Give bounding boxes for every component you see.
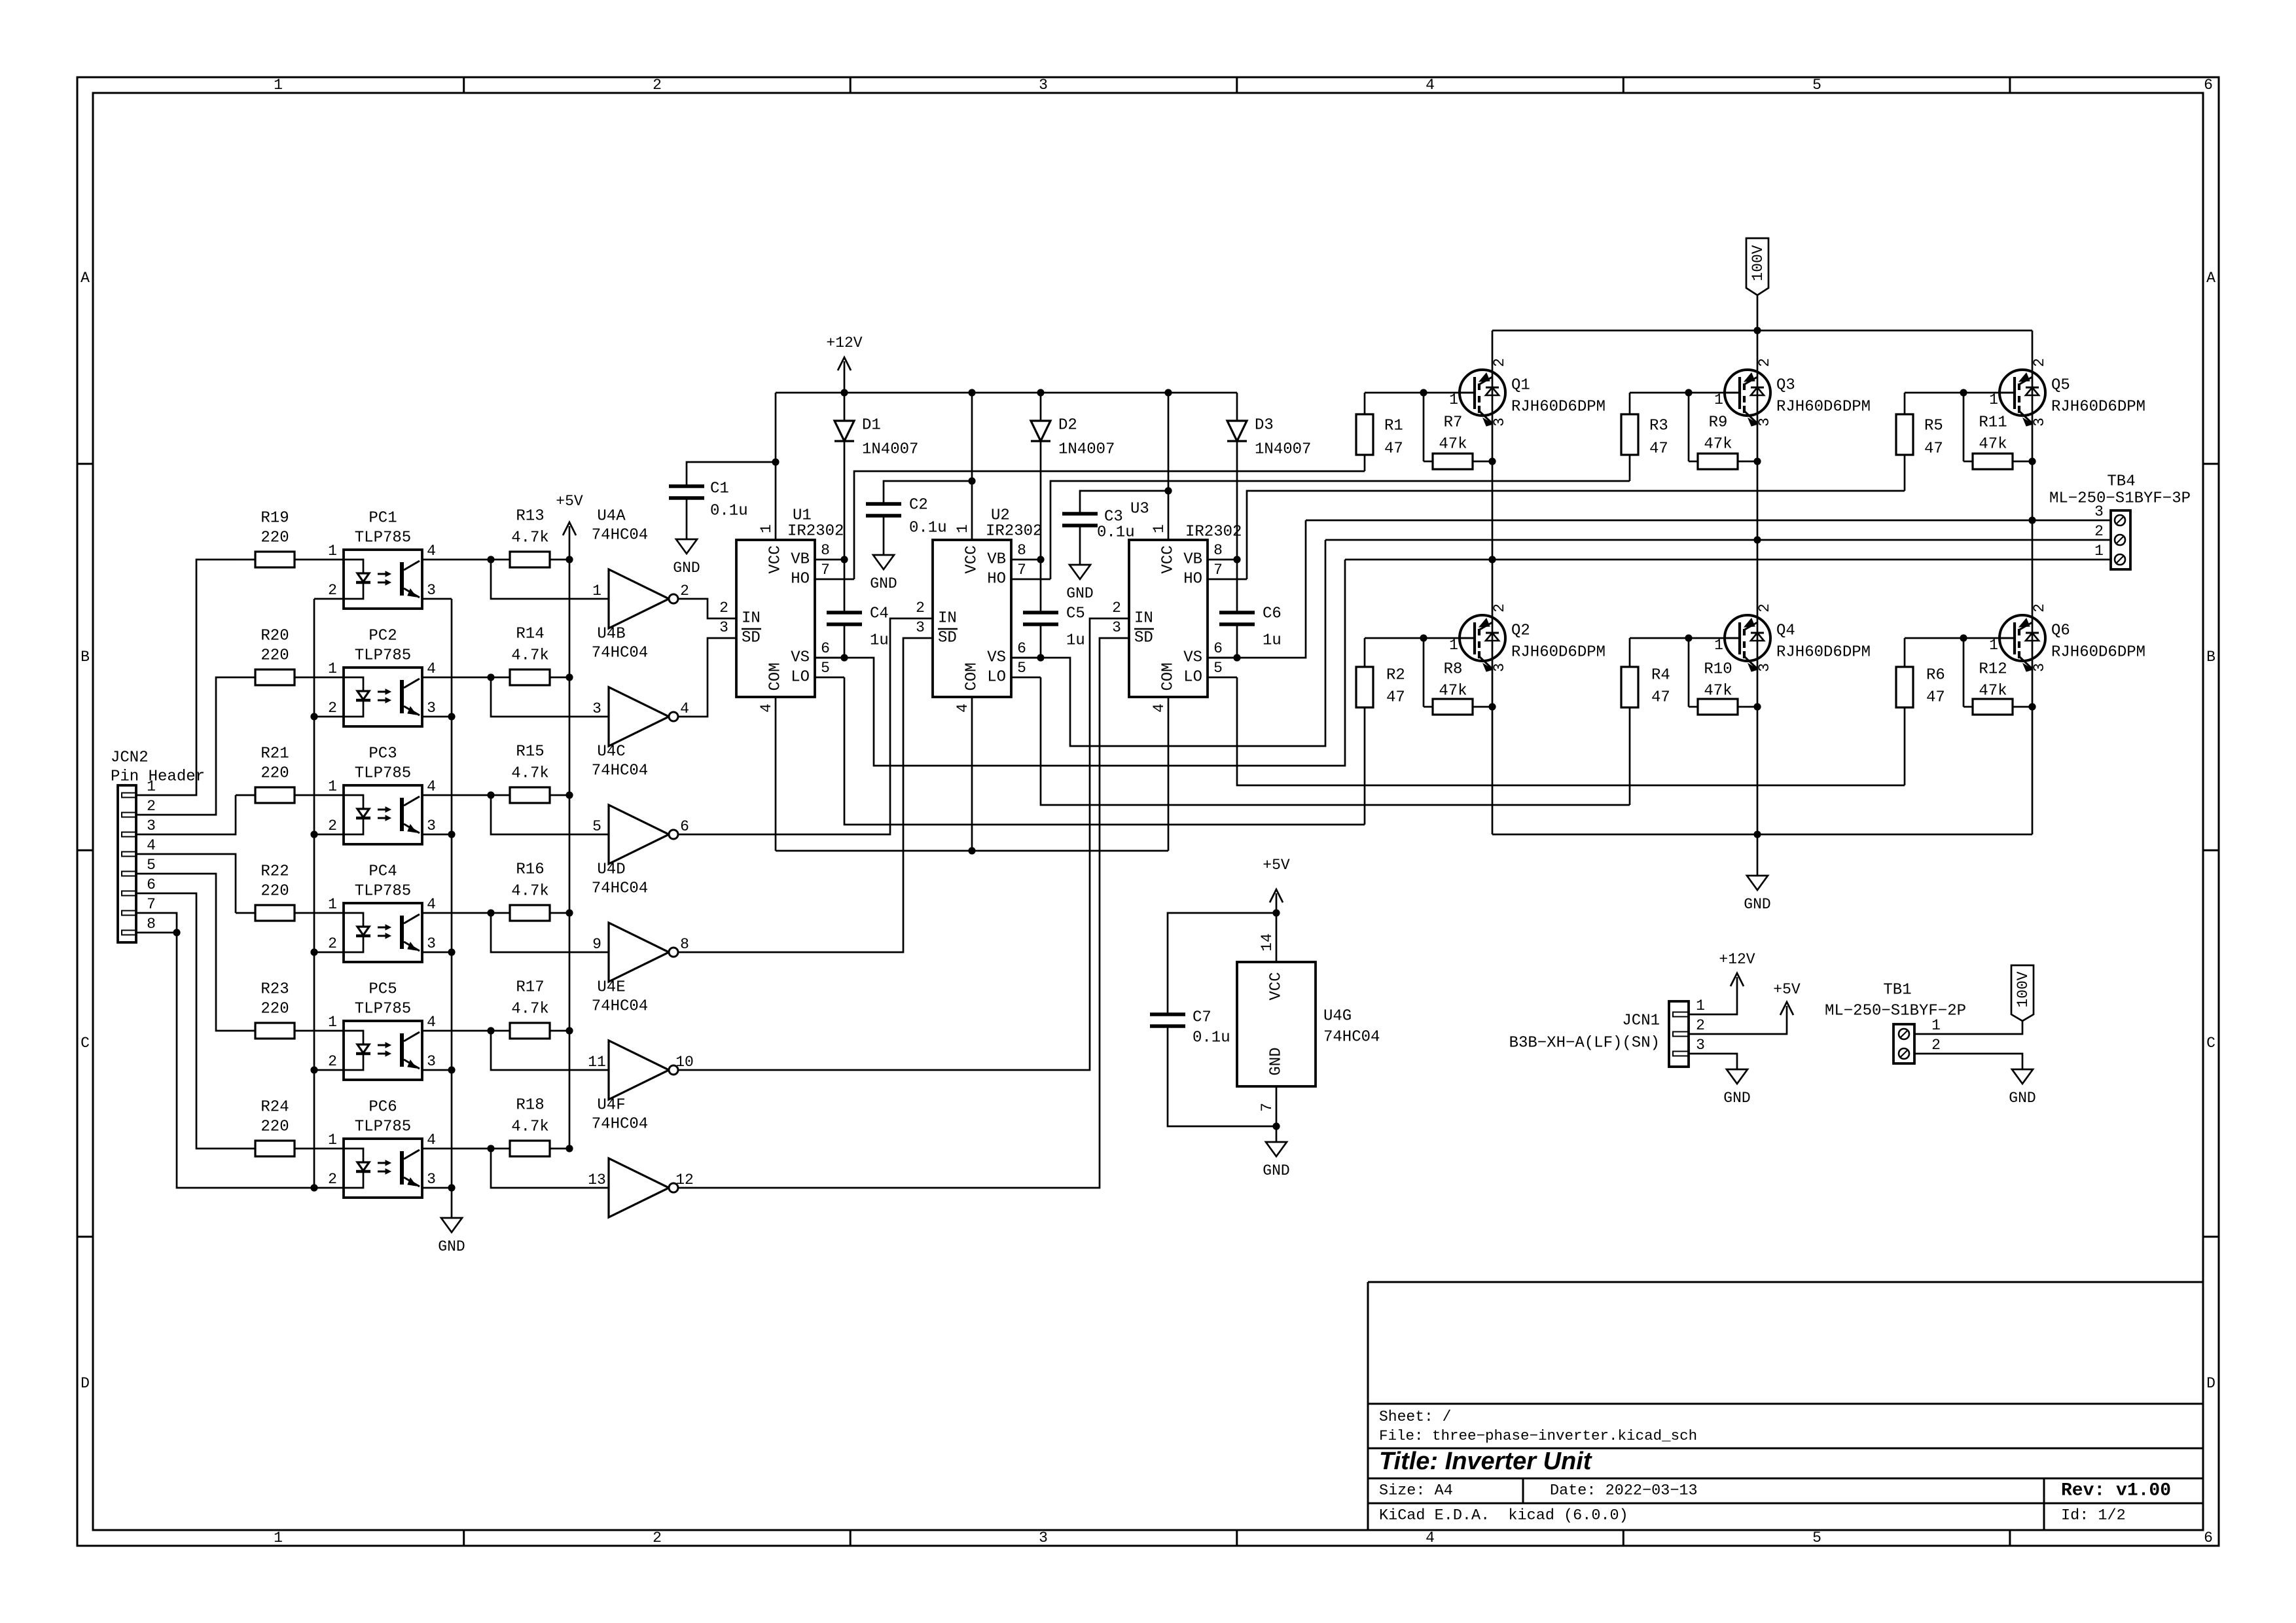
junction Q2 gate (1420, 634, 1427, 641)
svg-text:2: 2 (719, 599, 728, 616)
svg-text:VCC: VCC (963, 545, 981, 573)
svg-text:C: C (81, 1035, 90, 1052)
junction R10 emitter (1753, 703, 1761, 710)
svg-text:4: 4 (427, 896, 436, 913)
svg-text:Size: A4: Size: A4 (1379, 1482, 1453, 1500)
power +12V (826, 334, 862, 393)
svg-text:5: 5 (1017, 660, 1026, 677)
svg-text:3: 3 (1039, 77, 1048, 94)
wire HO2 (1050, 481, 1630, 579)
svg-text:R22: R22 (260, 863, 289, 881)
junction U4G GND (1272, 1122, 1280, 1130)
junction R11 emitter (2028, 457, 2036, 465)
junction Q3 gate (1685, 389, 1692, 396)
resistor R4 47 (low-side gate) (1621, 638, 1670, 805)
svg-text:3: 3 (427, 1171, 436, 1188)
wire JCN2 pin5 to R23 (136, 874, 236, 1031)
resistor R9 47k (gate-emitter) (1689, 393, 1757, 469)
junction R16 left (487, 909, 494, 916)
junction R15 left (487, 791, 494, 798)
transistor Q3 RJH60D6DPM (high-side IGBT) (1714, 358, 1871, 427)
svg-text:2: 2 (328, 935, 337, 952)
resistor R11 47k (gate-emitter) (1964, 393, 2032, 469)
svg-text:C5: C5 (1066, 605, 1085, 623)
svg-text:U4C: U4C (597, 743, 625, 761)
svg-text:1: 1 (1714, 637, 1723, 654)
svg-text:47k: 47k (1704, 436, 1732, 454)
svg-text:6: 6 (821, 640, 830, 657)
junction Q4 gate (1685, 634, 1692, 641)
svg-text:5: 5 (147, 857, 156, 874)
wire R13 node to U4 input (491, 560, 609, 599)
svg-text:D2: D2 (1058, 417, 1077, 435)
wire R15 node to U4 input (491, 795, 609, 834)
svg-text:+5V: +5V (1773, 981, 1801, 998)
wire LED cathode bus (x=480) (314, 599, 344, 1188)
resistor R20 220 (236, 628, 344, 686)
diode D2 1N4007 (1031, 393, 1115, 560)
svg-text:4: 4 (758, 704, 775, 713)
resistor R18 4.7k (422, 1097, 569, 1157)
wire U4E out to U3 IN (678, 618, 1109, 1070)
svg-text:74HC04: 74HC04 (592, 527, 648, 544)
svg-text:File: three−phase−inverter.kic: File: three−phase−inverter.kicad_sch (1379, 1427, 1697, 1444)
svg-text:47: 47 (1384, 440, 1403, 458)
svg-text:RJH60D6DPM: RJH60D6DPM (1776, 399, 1871, 416)
inverter power unit U4G 74HC04 (1237, 913, 1380, 1126)
svg-text:R6: R6 (1926, 667, 1945, 685)
svg-text:47: 47 (1926, 689, 1945, 707)
svg-text:GND: GND (870, 575, 897, 592)
svg-text:11: 11 (588, 1054, 606, 1071)
power +12V (JCN1) (1719, 951, 1755, 986)
svg-text:3: 3 (1696, 1037, 1705, 1054)
optocoupler PC4 TLP785 (328, 863, 436, 963)
transistor Q1 RJH60D6DPM (high-side IGBT) (1449, 358, 1605, 427)
junctions +12V rail (840, 389, 1172, 396)
svg-text:Q5: Q5 (2051, 377, 2070, 395)
svg-text:GND: GND (1723, 1090, 1750, 1107)
transistor Q5 RJH60D6DPM (high-side IGBT) (1989, 358, 2145, 427)
svg-text:2: 2 (1112, 599, 1121, 616)
svg-text:D: D (2206, 1375, 2215, 1392)
svg-text:74HC04: 74HC04 (1323, 1029, 1380, 1046)
svg-text:6: 6 (680, 818, 689, 835)
svg-text:TLP785: TLP785 (355, 647, 411, 665)
svg-text:R15: R15 (516, 743, 544, 761)
svg-text:7: 7 (1017, 562, 1026, 579)
junction R12 emitter (2028, 703, 2036, 710)
svg-text:1: 1 (328, 660, 337, 677)
svg-text:8: 8 (821, 542, 830, 559)
power flag 100V (top) (1746, 238, 1768, 330)
junction C2 tap (968, 477, 975, 484)
svg-text:R1: R1 (1384, 418, 1403, 435)
svg-text:D3: D3 (1255, 417, 1274, 435)
junction R9 emitter (1753, 457, 1761, 465)
capacitor C3 0.1u (1062, 491, 1168, 565)
svg-text:8: 8 (680, 936, 689, 953)
svg-text:1: 1 (328, 1132, 337, 1149)
junction phase U / Q1 emitter (1488, 556, 1496, 563)
junction Q5 gate (1960, 389, 1967, 396)
ground U4G (1263, 1126, 1289, 1179)
svg-text:1: 1 (1449, 637, 1458, 654)
junction C1 tap (772, 458, 779, 465)
svg-text:1: 1 (592, 582, 601, 599)
svg-text:4: 4 (680, 700, 689, 717)
svg-text:U4G: U4G (1323, 1008, 1352, 1026)
svg-text:VB: VB (791, 551, 810, 569)
junction phase V / Q3 emitter (1753, 536, 1761, 543)
svg-text:U4F: U4F (597, 1097, 625, 1115)
svg-text:1N4007: 1N4007 (1058, 441, 1115, 459)
wire LO1 (844, 677, 1365, 825)
transistor Q6 RJH60D6DPM (low-side IGBT) (1989, 603, 2145, 672)
junction R13 left (487, 556, 494, 563)
svg-text:PC4: PC4 (368, 863, 397, 881)
svg-text:3: 3 (1756, 663, 1773, 672)
svg-text:Q4: Q4 (1776, 622, 1795, 640)
svg-text:IR2302: IR2302 (1185, 524, 1242, 541)
svg-text:RJH60D6DPM: RJH60D6DPM (2051, 644, 2145, 662)
junctions cathode bus (310, 713, 317, 1191)
wire U3 COM drop (1168, 697, 1170, 851)
svg-text:TLP785: TLP785 (355, 765, 411, 783)
inverter gate U4E 74HC04 (588, 979, 694, 1100)
svg-text:2: 2 (1491, 358, 1508, 367)
svg-text:220: 220 (260, 765, 289, 783)
svg-text:8: 8 (1213, 542, 1223, 559)
svg-text:GND: GND (1263, 1162, 1289, 1179)
+5V rail for pullups (556, 493, 583, 1149)
svg-text:R14: R14 (516, 626, 544, 643)
svg-text:Rev: v1.00: Rev: v1.00 (2061, 1481, 2171, 1501)
svg-text:IR2302: IR2302 (787, 523, 844, 541)
svg-text:R2: R2 (1386, 667, 1405, 685)
junction R16 right on +5V rail (565, 909, 573, 916)
resistor R22 220 (236, 863, 344, 921)
wire Q3 collector (1757, 330, 1759, 372)
wire VS1 to phase U (815, 560, 1345, 766)
junction R14 left (487, 673, 494, 681)
svg-text:3: 3 (427, 817, 436, 834)
svg-text:3: 3 (147, 817, 156, 834)
svg-text:7: 7 (1259, 1103, 1276, 1112)
resistor R12 47k (gate-emitter) (1964, 638, 2032, 715)
diode D3 1N4007 (1227, 393, 1311, 560)
svg-text:RJH60D6DPM: RJH60D6DPM (1511, 644, 1605, 662)
svg-text:+5V: +5V (1263, 857, 1290, 874)
wire JCN2 pin2 to R20 (136, 677, 236, 815)
junction GND bus / Q4 emitter (1753, 830, 1761, 838)
svg-text:47k: 47k (1704, 683, 1732, 700)
svg-text:LO: LO (791, 669, 810, 687)
wire phase U (TB4 pin1) (1345, 559, 2111, 561)
capacitor C1 0.1u (669, 462, 776, 539)
optocoupler PC5 TLP785 (328, 981, 436, 1080)
resistor R15 4.7k (422, 743, 569, 804)
junction U2 COM (968, 847, 975, 854)
junction R14 right on +5V rail (565, 673, 573, 681)
svg-text:R5: R5 (1924, 418, 1943, 435)
svg-text:U4D: U4D (597, 861, 625, 879)
wire Q5 collector (2032, 330, 2034, 372)
svg-text:PC5: PC5 (368, 981, 397, 999)
connector JCN2 Pin Header (111, 749, 205, 943)
svg-text:IN: IN (1134, 610, 1153, 628)
wire low-side emitter GND bus (1492, 834, 2032, 836)
svg-text:3: 3 (427, 935, 436, 952)
svg-text:Pin Header: Pin Header (111, 768, 205, 786)
svg-text:R13: R13 (516, 508, 544, 526)
svg-text:13: 13 (588, 1171, 606, 1188)
svg-text:D: D (81, 1375, 90, 1392)
wire LO3 (1237, 677, 1905, 785)
wire U4D out to U2 SD (678, 638, 913, 952)
wire JCN1 pin3 to GND (1689, 1054, 1737, 1069)
svg-text:3: 3 (1491, 663, 1508, 672)
svg-text:A: A (2206, 270, 2215, 287)
wire JCN2 pin4 to R22 (136, 854, 236, 913)
svg-text:R4: R4 (1651, 667, 1670, 685)
svg-text:R21: R21 (260, 745, 289, 763)
svg-text:1: 1 (274, 77, 283, 94)
svg-text:GND: GND (438, 1238, 465, 1255)
svg-text:7: 7 (1213, 562, 1223, 579)
terminal block TB4 ML-250-S1BYF-3P (2049, 473, 2191, 570)
svg-text:RJH60D6DPM: RJH60D6DPM (1511, 399, 1605, 416)
svg-text:2: 2 (2094, 523, 2104, 540)
svg-text:7: 7 (147, 896, 156, 913)
wire R18 node to U4 input (491, 1149, 609, 1188)
svg-text:47k: 47k (1979, 436, 2007, 454)
power +5V (JCN1) (1773, 981, 1801, 1015)
wire R14 node to U4 input (491, 677, 609, 717)
svg-text:2: 2 (328, 817, 337, 834)
svg-text:4: 4 (1151, 704, 1168, 713)
svg-text:1u: 1u (1263, 632, 1282, 650)
svg-text:GND: GND (1268, 1047, 1285, 1075)
svg-text:6: 6 (1017, 640, 1026, 657)
junction JCN2 pin8 (173, 929, 180, 936)
svg-text:4: 4 (427, 1132, 436, 1149)
svg-text:TLP785: TLP785 (355, 1001, 411, 1018)
junction C3 tap (1164, 487, 1172, 494)
svg-text:PC3: PC3 (368, 745, 397, 763)
svg-text:4.7k: 4.7k (511, 883, 549, 901)
svg-text:2: 2 (916, 599, 925, 616)
inverter gate U4D 74HC04 (592, 861, 689, 982)
junction R18 right on +5V rail (565, 1145, 573, 1152)
svg-text:C4: C4 (870, 605, 889, 623)
svg-text:220: 220 (260, 1001, 289, 1018)
inverter gate U4F 74HC04 (588, 1097, 694, 1218)
svg-text:9: 9 (592, 936, 601, 953)
svg-text:1: 1 (328, 543, 337, 560)
svg-text:R9: R9 (1709, 414, 1728, 432)
svg-text:R3: R3 (1649, 418, 1668, 435)
svg-text:1N4007: 1N4007 (1255, 441, 1311, 459)
wire U2 VCC riser (971, 393, 973, 540)
svg-text:U1: U1 (793, 507, 812, 525)
wire TB1 pin1 to 100V (1914, 1021, 2022, 1034)
svg-text:U4A: U4A (597, 508, 626, 526)
svg-text:HO: HO (987, 571, 1006, 588)
junction C4 VB (840, 556, 848, 563)
svg-text:2: 2 (328, 700, 337, 717)
+12V rail (776, 392, 1237, 394)
svg-text:SD: SD (742, 630, 761, 647)
svg-text:GND: GND (673, 560, 700, 577)
wire Q3 gate line (1630, 392, 1740, 394)
svg-text:R11: R11 (1979, 414, 2007, 432)
junction R8 emitter (1488, 703, 1496, 710)
svg-text:5: 5 (1812, 1529, 1821, 1546)
ground C1 (673, 539, 700, 577)
svg-text:R8: R8 (1444, 661, 1463, 679)
svg-text:C6: C6 (1263, 605, 1282, 623)
wire JCN1 pin1 to +12V (1689, 983, 1737, 1014)
resistor R5 47 (high-side gate) (1896, 393, 1943, 491)
svg-text:4: 4 (427, 660, 436, 677)
svg-text:0.1u: 0.1u (710, 503, 748, 520)
svg-text:Q6: Q6 (2051, 622, 2070, 640)
junction R18 left (487, 1145, 494, 1152)
wire U1 COM drop (775, 697, 777, 851)
svg-text:74HC04: 74HC04 (592, 880, 648, 898)
title block (1368, 1282, 2203, 1530)
svg-text:6: 6 (2204, 1529, 2213, 1546)
junction R7 emitter (1488, 457, 1496, 465)
svg-text:RJH60D6DPM: RJH60D6DPM (1776, 644, 1871, 662)
svg-text:6: 6 (147, 876, 156, 893)
wire Q1 collector (1492, 330, 1494, 372)
wire JCN2 pin6 to R24 (136, 893, 236, 1149)
svg-text:2: 2 (653, 1529, 662, 1546)
resistor R23 220 (236, 981, 344, 1039)
svg-text:47: 47 (1924, 440, 1943, 458)
svg-text:PC2: PC2 (368, 628, 397, 645)
wire VS3 to phase W (1208, 520, 1306, 658)
svg-text:HO: HO (791, 571, 810, 588)
svg-text:3: 3 (592, 700, 601, 717)
wire R16 node to U4 input (491, 913, 609, 952)
svg-text:2: 2 (328, 582, 337, 599)
svg-text:2: 2 (653, 77, 662, 94)
svg-text:2: 2 (147, 798, 156, 815)
svg-text:1: 1 (328, 1014, 337, 1031)
svg-text:VS: VS (987, 649, 1006, 667)
svg-text:VB: VB (1183, 551, 1202, 569)
svg-text:0.1u: 0.1u (1097, 524, 1135, 542)
capacitor C2 0.1u (866, 481, 972, 555)
svg-text:100V: 100V (2015, 971, 2032, 1007)
svg-text:1u: 1u (870, 632, 889, 650)
wire JCN1 pin2 to +5V (1689, 1012, 1787, 1034)
wire 100V collector bus (1492, 330, 2032, 332)
svg-text:3: 3 (719, 619, 728, 636)
svg-text:1N4007: 1N4007 (862, 441, 918, 459)
svg-text:TLP785: TLP785 (355, 529, 411, 547)
svg-text:R12: R12 (1979, 661, 2007, 679)
svg-text:47: 47 (1649, 440, 1668, 458)
svg-text:JCN1: JCN1 (1622, 1012, 1660, 1030)
wire phase V (TB4 pin2) (1325, 539, 2111, 541)
gate driver U2 IR2302 (913, 507, 1050, 713)
resistor R1 47 (high-side gate) (1356, 393, 1403, 471)
svg-text:SD: SD (938, 630, 957, 647)
power +5V for U4G (1263, 857, 1290, 913)
svg-text:1: 1 (1714, 391, 1723, 408)
svg-text:1: 1 (954, 524, 971, 533)
resistor R2 47 (low-side gate) (1356, 638, 1405, 825)
svg-text:C7: C7 (1193, 1009, 1211, 1027)
transistor Q2 RJH60D6DPM (low-side IGBT) (1449, 603, 1605, 672)
svg-text:3: 3 (427, 582, 436, 599)
svg-text:3: 3 (916, 619, 925, 636)
capacitor C6 1u (1219, 560, 1282, 658)
svg-text:47k: 47k (1439, 436, 1467, 454)
svg-text:R17: R17 (516, 979, 544, 997)
ground C2 (870, 555, 897, 592)
junction C6 VB (1233, 556, 1240, 563)
svg-text:2: 2 (680, 582, 689, 599)
svg-text:14: 14 (1259, 933, 1276, 952)
svg-text:U2: U2 (991, 507, 1010, 525)
wire JCN2 pin1 to R19 (136, 560, 236, 795)
svg-text:ML−250−S1BYF−3P: ML−250−S1BYF−3P (2049, 490, 2191, 508)
svg-text:3: 3 (2031, 663, 2048, 672)
svg-text:12: 12 (675, 1171, 694, 1188)
svg-text:8: 8 (147, 916, 156, 933)
wire Q6 emitter to GND bus (2032, 669, 2034, 834)
svg-text:+12V: +12V (1719, 951, 1755, 968)
resistor R8 47k (gate-emitter) (1424, 638, 1492, 715)
svg-text:4.7k: 4.7k (511, 1118, 549, 1136)
wire U4C out to U2 IN (678, 618, 913, 834)
wire VS2 to phase V (1011, 540, 1325, 746)
svg-text:VCC: VCC (1268, 972, 1285, 1000)
svg-text:4.7k: 4.7k (511, 647, 549, 665)
wire U3 VCC riser (1168, 393, 1170, 540)
svg-text:1: 1 (328, 778, 337, 795)
svg-text:74HC04: 74HC04 (592, 645, 648, 662)
capacitor C7 0.1u (1150, 913, 1276, 1126)
svg-text:1: 1 (1989, 391, 1998, 408)
svg-text:R10: R10 (1704, 661, 1732, 679)
svg-text:Date: 2022−03−13: Date: 2022−03−13 (1550, 1482, 1698, 1500)
wire HO3 (1247, 491, 1905, 579)
junction C4 VS (840, 654, 848, 661)
svg-text:220: 220 (260, 883, 289, 901)
svg-text:Id: 1/2: Id: 1/2 (2061, 1507, 2126, 1525)
svg-text:5: 5 (1213, 660, 1223, 677)
svg-text:2: 2 (328, 1171, 337, 1188)
svg-text:Q3: Q3 (1776, 377, 1795, 395)
svg-text:VB: VB (987, 551, 1006, 569)
svg-text:4.7k: 4.7k (511, 529, 549, 547)
junction R13 right on +5V rail (565, 556, 573, 563)
svg-text:VS: VS (1183, 649, 1202, 667)
svg-text:4: 4 (954, 704, 971, 713)
svg-text:+12V: +12V (826, 334, 862, 351)
resistor R3 47 (high-side gate) (1621, 393, 1668, 481)
svg-text:2: 2 (1491, 603, 1508, 613)
wire Q1 gate line (1365, 392, 1475, 394)
inverter gate U4A 74HC04 (592, 508, 689, 629)
svg-text:R16: R16 (516, 861, 544, 879)
